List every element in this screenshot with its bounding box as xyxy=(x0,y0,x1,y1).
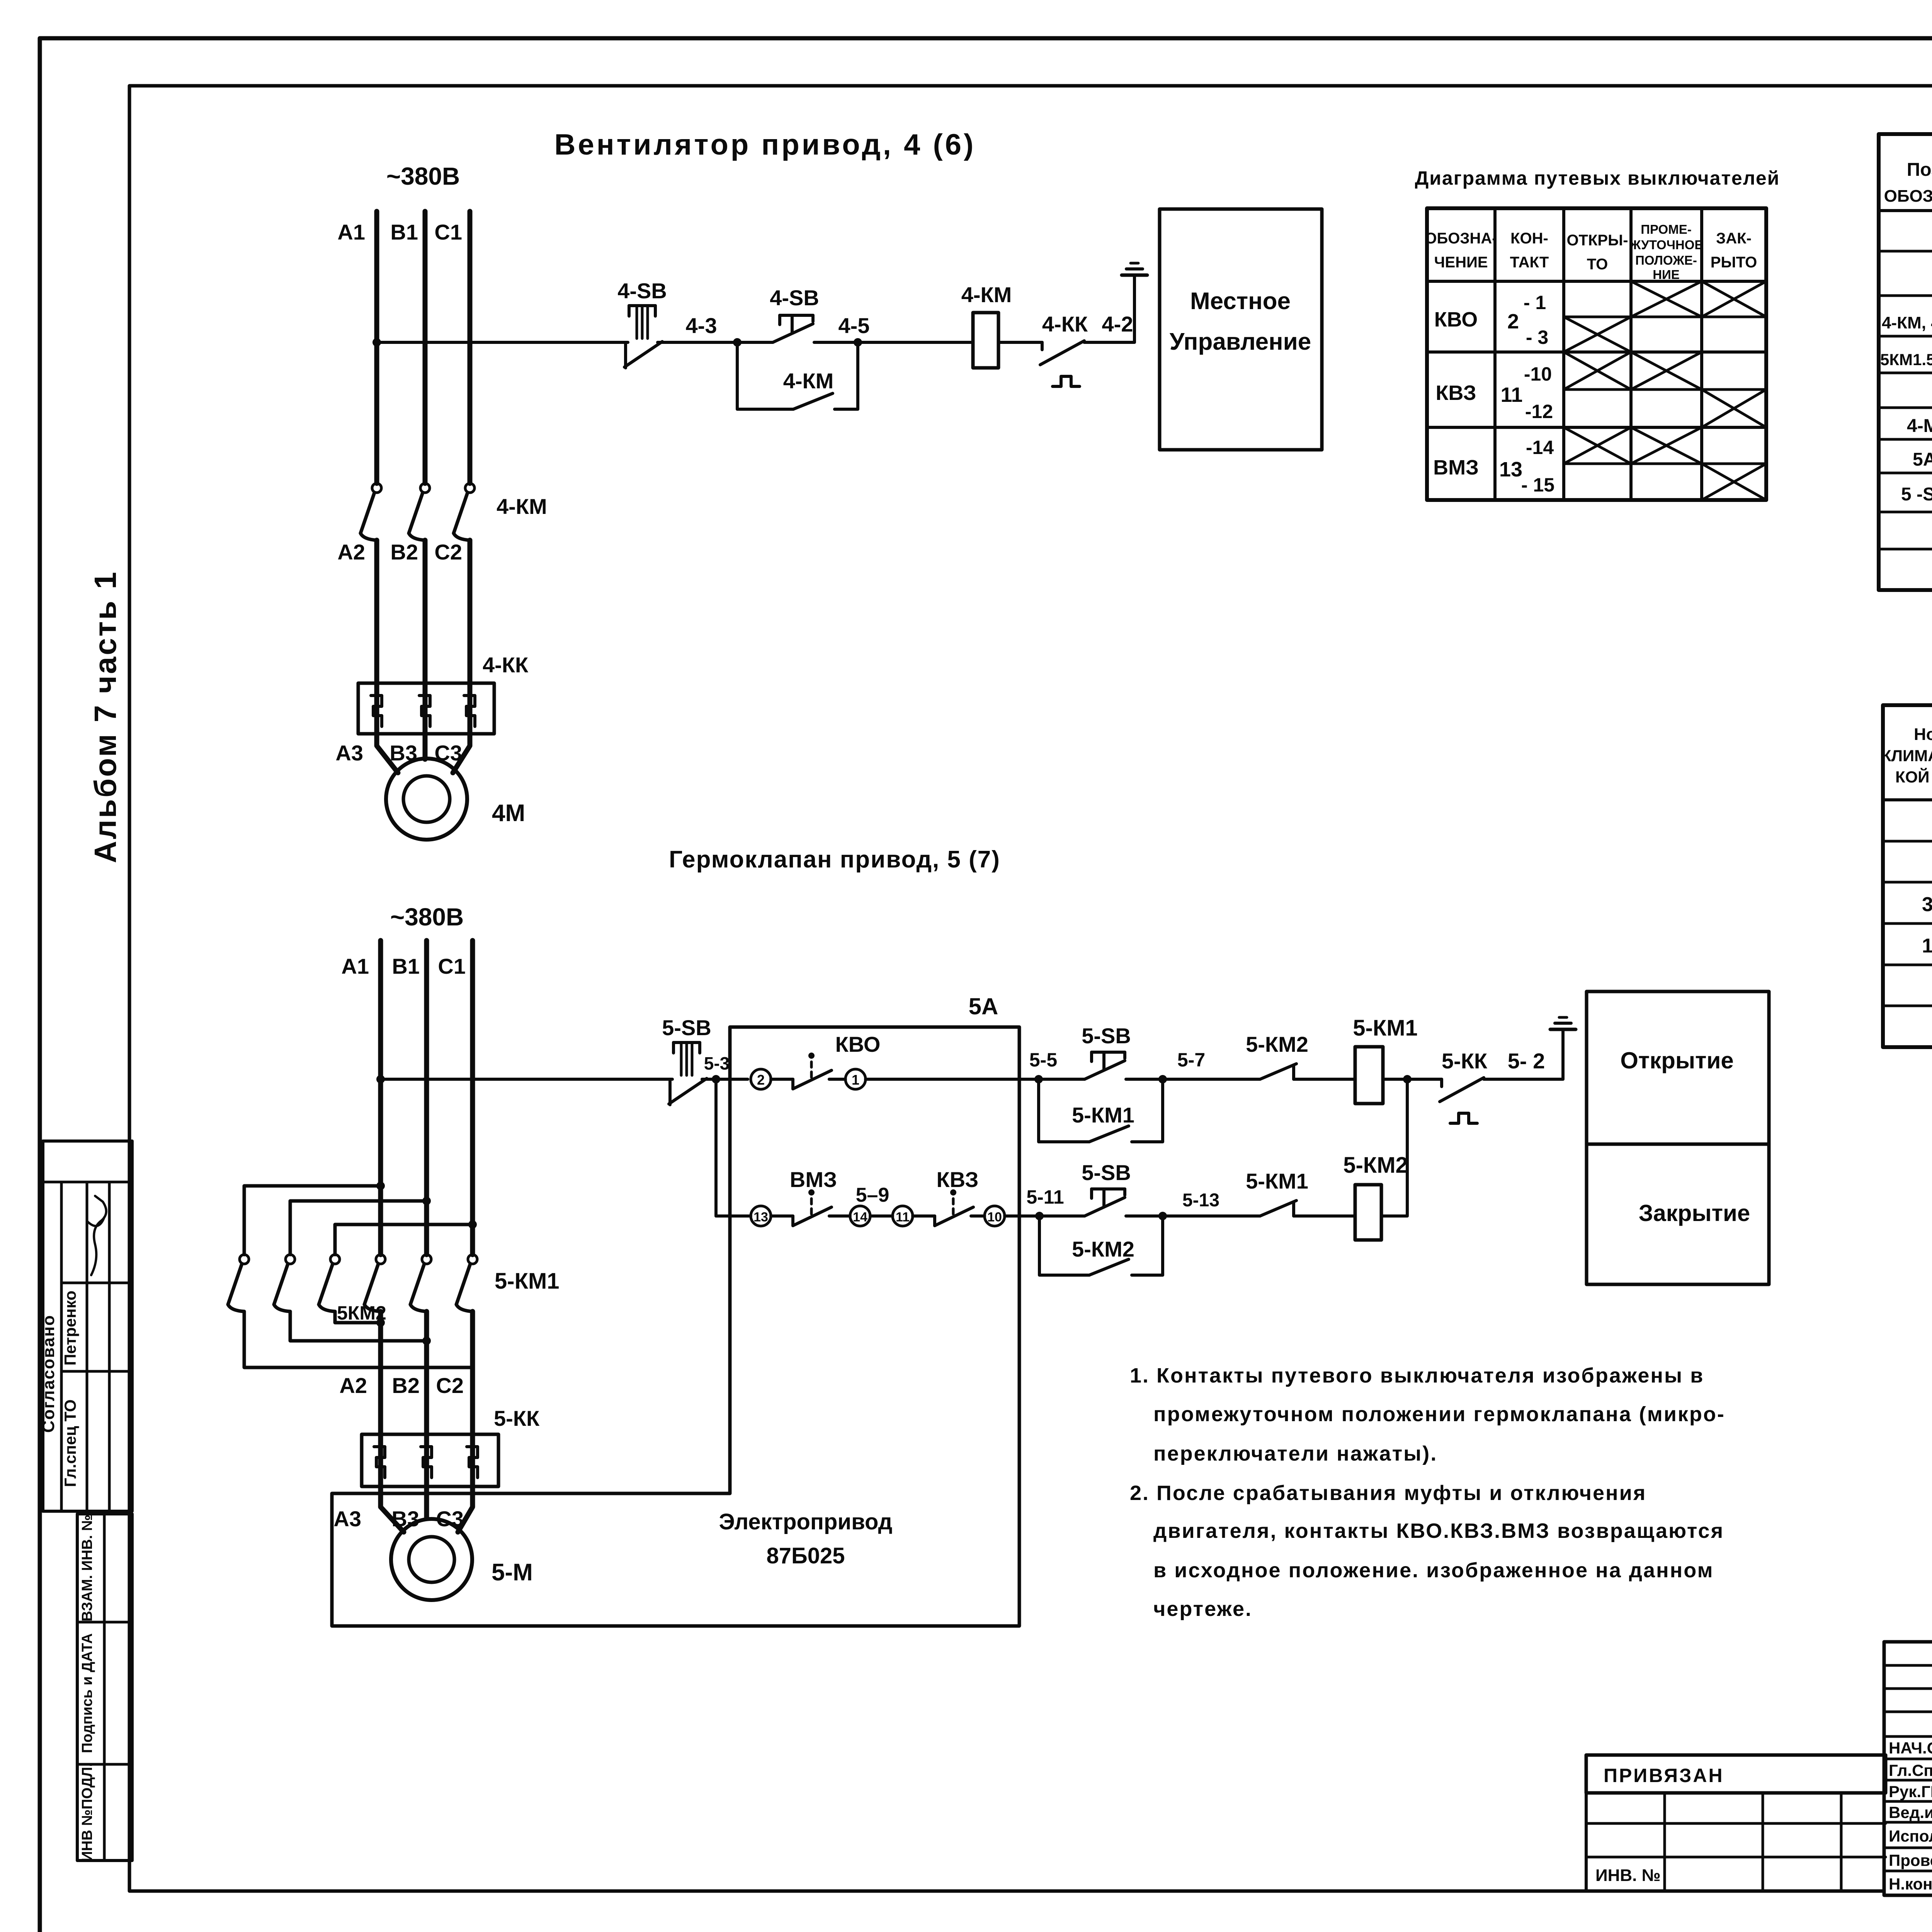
cross KVO-3 open xyxy=(1564,317,1631,352)
signatures rows text xyxy=(1889,1739,1932,1893)
pushbutton 5-SB (close, NO) xyxy=(1085,1189,1125,1216)
wire B3 to motor xyxy=(423,734,428,759)
svg-text:А1: А1 xyxy=(341,954,369,978)
svg-text:4-5: 4-5 xyxy=(838,313,870,338)
title Вентилятор привод 4(6) xyxy=(554,128,976,161)
label 5A xyxy=(969,993,998,1019)
node C3 (valve) xyxy=(436,1507,464,1531)
label Петренко xyxy=(61,1291,79,1366)
wire phase bus C1 xyxy=(468,211,473,483)
svg-text:5-13: 5-13 xyxy=(1182,1190,1219,1211)
svg-text:Исполн.: Исполн. xyxy=(1889,1827,1932,1845)
svg-text:4-КМ: 4-КМ xyxy=(783,369,834,393)
label 5-KK (control) xyxy=(1442,1049,1488,1073)
signatures table xyxy=(1884,1642,1932,1895)
svg-text:5 -SB: 5 -SB xyxy=(1901,484,1932,505)
svg-text:ПРОМЕ-: ПРОМЕ- xyxy=(1641,222,1691,236)
terminal (14) xyxy=(850,1206,870,1226)
label 5-KM1 (coil) xyxy=(1353,1015,1418,1041)
title Гермоклапан привод 5(7) xyxy=(669,846,1000,873)
svg-text:5- 2: 5- 2 xyxy=(1508,1049,1545,1073)
junction of closing branch riser xyxy=(1403,1075,1412,1083)
cross KVZ-12 closed xyxy=(1702,389,1766,427)
svg-text:5-SB: 5-SB xyxy=(1082,1160,1131,1185)
svg-text:ТАКТ: ТАКТ xyxy=(1510,254,1549,271)
cross KVZ-10 intermediate xyxy=(1631,352,1702,389)
parts row Пост управления xyxy=(1901,483,1932,505)
node 5-7 xyxy=(1158,1049,1205,1083)
svg-text:5-КМ2: 5-КМ2 xyxy=(1343,1153,1408,1178)
svg-text:С2: С2 xyxy=(434,540,462,564)
pushbutton 5-SB (open, NO) xyxy=(1085,1052,1125,1079)
svg-text:ПРИВЯЗАН: ПРИВЯЗАН xyxy=(1604,1765,1724,1786)
wire control line to 5-SB xyxy=(381,1078,672,1081)
svg-text:в исходное положение. изобра: в исходное положение. изображенное на да… xyxy=(1153,1559,1714,1582)
svg-text:Гермоклапан привод, 5 (7): Гермоклапан привод, 5 (7) xyxy=(669,846,1000,873)
thermal contact 4-KK xyxy=(1040,341,1084,386)
svg-text:промежуточном положении герм: промежуточном положении гермоклапана (ми… xyxy=(1153,1403,1725,1426)
wire A3 to motor xyxy=(377,734,398,773)
label 5-KK (heaters) xyxy=(494,1406,540,1430)
wire phase B2 (valve) xyxy=(424,1311,429,1486)
svg-text:Гл.спец ТО: Гл.спец ТО xyxy=(61,1400,79,1487)
svg-text:КВЗ: КВЗ xyxy=(1435,381,1476,405)
album label xyxy=(88,570,122,863)
node A1 xyxy=(337,220,365,244)
wire phase bus B1 xyxy=(423,211,428,483)
motor 5-M xyxy=(391,1519,472,1600)
thermal relay 5-KK heater box xyxy=(362,1434,498,1486)
svg-text:Согласовано: Согласовано xyxy=(39,1315,58,1433)
terminal (1) xyxy=(845,1069,866,1089)
parts row Электропривод xyxy=(1913,448,1932,470)
contactor 4-KM pole A xyxy=(361,483,381,540)
label 4-KK (heaters) xyxy=(483,653,529,677)
wire phase bus A1 xyxy=(374,211,379,483)
wire phase C2 (valve) xyxy=(470,1311,475,1486)
svg-text:В2: В2 xyxy=(390,540,418,564)
label 5-SB (open) xyxy=(1082,1024,1131,1048)
label 5-9 xyxy=(856,1184,889,1206)
svg-text:Рук.ГР.: Рук.ГР. xyxy=(1889,1782,1932,1801)
wire 4-KK to ground riser xyxy=(1084,275,1134,342)
node C2 (valve) xyxy=(436,1373,464,1398)
coil 4-KM xyxy=(973,313,998,368)
svg-text:14: 14 xyxy=(853,1210,867,1225)
label 5-KM1 (self-hold) xyxy=(1072,1103,1134,1127)
svg-text:- 1: - 1 xyxy=(1524,292,1546,313)
wire coil to 4-KK xyxy=(998,341,1042,344)
node A2 (valve) xyxy=(339,1373,367,1398)
svg-text:2: 2 xyxy=(1507,310,1519,333)
svg-text:5-11: 5-11 xyxy=(1026,1186,1064,1208)
label Гл.спец ТО xyxy=(61,1400,79,1487)
svg-text:Диаграмма путевых выключател: Диаграмма путевых выключателей xyxy=(1415,167,1780,189)
svg-text:5-SB: 5-SB xyxy=(1082,1024,1131,1048)
label 4-SB xyxy=(617,279,667,303)
svg-text:Местное: Местное xyxy=(1190,288,1291,315)
wire to node 5-13 xyxy=(1126,1214,1260,1218)
node 4-3 xyxy=(686,313,742,347)
svg-text:ПОЛОЖЕ-: ПОЛОЖЕ- xyxy=(1635,253,1697,267)
wire B3 to motor (valve) xyxy=(424,1486,429,1519)
switch VMZ row labels xyxy=(1433,437,1554,496)
svg-text:ОТКРЫ-: ОТКРЫ- xyxy=(1566,232,1628,249)
parts row Электродвигатель xyxy=(1907,415,1932,437)
svg-text:5–9: 5–9 xyxy=(856,1184,889,1206)
contactor 4-KM pole C xyxy=(454,483,474,540)
label 5-KM2 (coil) xyxy=(1343,1153,1408,1178)
svg-text:КВО: КВО xyxy=(835,1032,881,1056)
label 4-KK xyxy=(1042,312,1088,336)
svg-text:ЖУТОЧНОЕ: ЖУТОЧНОЕ xyxy=(1629,238,1703,252)
label Электропривод 87Б025 xyxy=(719,1509,893,1568)
svg-text:Поз.: Поз. xyxy=(1907,160,1932,180)
node 4-5 xyxy=(838,313,870,347)
svg-text:Н.контр.: Н.контр. xyxy=(1889,1875,1932,1893)
svg-text:НИЕ: НИЕ xyxy=(1653,267,1680,282)
svg-text:4-КМ: 4-КМ xyxy=(497,494,547,519)
wire C3 to motor xyxy=(453,734,470,773)
ground (fan control) xyxy=(1122,263,1147,275)
thermal contact 5-KK xyxy=(1440,1078,1484,1123)
label ИНВ.№ подл. xyxy=(79,1763,95,1862)
svg-text:В1: В1 xyxy=(390,220,418,244)
svg-text:Номер: Номер xyxy=(1914,725,1932,744)
label 4-KM (coil) xyxy=(961,282,1012,307)
svg-text:5-КМ2: 5-КМ2 xyxy=(1072,1237,1134,1261)
contactor 5-KM2 pole 1 xyxy=(228,1255,249,1311)
svg-text:КВЗ: КВЗ xyxy=(937,1167,979,1192)
contactor 5-KM1 pole B xyxy=(410,1255,431,1311)
svg-text:~380В: ~380В xyxy=(386,162,460,190)
svg-text:Подпись и ДАТА: Подпись и ДАТА xyxy=(79,1633,95,1753)
cross VMZ-14 open xyxy=(1564,427,1631,464)
svg-text:ВЗАМ. ИНВ. №: ВЗАМ. ИНВ. № xyxy=(79,1515,95,1622)
node B3 xyxy=(389,741,417,765)
node C3 xyxy=(434,741,462,765)
terminal (2) xyxy=(751,1069,771,1089)
svg-text:чертеже.: чертеже. xyxy=(1153,1597,1252,1621)
svg-text:13: 13 xyxy=(1499,458,1522,481)
svg-text:Петренко: Петренко xyxy=(61,1291,79,1366)
svg-text:ОБОЗНАЧ: ОБОЗНАЧ xyxy=(1884,187,1932,206)
svg-text:- 15: - 15 xyxy=(1521,474,1554,496)
svg-text:4-3: 4-3 xyxy=(686,313,717,338)
svg-text:ЗАК-: ЗАК- xyxy=(1716,230,1752,247)
svg-text:ТО: ТО xyxy=(1587,256,1608,273)
svg-text:4-2: 4-2 xyxy=(1102,312,1133,336)
parts row ПМЛ xyxy=(1882,311,1932,335)
box 5A electric drive outline xyxy=(332,1027,1019,1626)
wire A2 segment xyxy=(374,540,379,734)
terminal (11) xyxy=(893,1206,913,1226)
svg-text:13: 13 xyxy=(753,1210,768,1225)
limit switch KVO xyxy=(771,1053,845,1089)
wire crossover loop 2 bottom xyxy=(290,1311,431,1345)
wire crossover loop 3 top xyxy=(335,1220,477,1255)
node C1 xyxy=(434,220,462,244)
diagram table grid xyxy=(1427,208,1766,500)
switch KVZ row labels xyxy=(1435,363,1553,422)
wire node 5-3 into box xyxy=(702,1078,748,1081)
svg-text:Открытие: Открытие xyxy=(1620,1048,1734,1073)
signature squiggle xyxy=(87,1196,106,1275)
wire 5-KK to ground riser (valve) xyxy=(1484,1029,1563,1079)
label KVZ xyxy=(937,1167,979,1192)
box Местное Управление xyxy=(1160,209,1322,450)
switch KVO row labels xyxy=(1434,292,1548,348)
lower stamp box xyxy=(77,1514,132,1861)
wire phase bus B1 (valve) xyxy=(424,940,429,1255)
net ~380V (fan) xyxy=(386,162,460,190)
wire crossover loop 1 top xyxy=(244,1182,385,1255)
cross KVO-1 closed xyxy=(1702,281,1766,317)
cross VMZ-15 closed xyxy=(1702,464,1766,500)
svg-text:1. Контакты путевого выключат: 1. Контакты путевого выключателя изображ… xyxy=(1130,1364,1704,1387)
svg-text:В1: В1 xyxy=(392,954,420,978)
wire crossover loop 1 bottom xyxy=(244,1311,473,1367)
label 5-SB (stop) xyxy=(662,1015,711,1040)
label 5-KM1 (contactor) xyxy=(495,1269,560,1294)
svg-text:~380В: ~380В xyxy=(390,903,464,931)
svg-text:5-КМ2: 5-КМ2 xyxy=(1246,1032,1308,1056)
node C2 xyxy=(434,540,462,564)
wire B2 segment xyxy=(423,540,428,734)
wire crossover loop 3 bottom xyxy=(335,1311,385,1327)
node 5-3 xyxy=(704,1053,730,1083)
parts table header xyxy=(1884,160,1932,206)
contact 5-KM2 NC xyxy=(1260,1064,1355,1079)
svg-text:87Б025: 87Б025 xyxy=(767,1543,845,1568)
svg-text:КВО: КВО xyxy=(1434,308,1478,331)
svg-text:5-КМ1: 5-КМ1 xyxy=(1246,1169,1308,1193)
wire to node 5-7 xyxy=(1126,1078,1260,1081)
pushbutton 4-SB (start, NO) xyxy=(773,315,813,342)
svg-text:5-3: 5-3 xyxy=(704,1053,730,1073)
svg-text:Управление: Управление xyxy=(1170,328,1311,355)
wire coil 5-KM2 to riser xyxy=(1381,1079,1407,1216)
svg-text:4-SB: 4-SB xyxy=(770,286,819,310)
contactor 5-KM2 pole 3 xyxy=(319,1255,340,1311)
svg-text:ВМЗ: ВМЗ xyxy=(790,1167,837,1192)
label 4M xyxy=(492,800,525,827)
svg-text:А3: А3 xyxy=(333,1507,361,1531)
svg-text:А1: А1 xyxy=(337,220,365,244)
node 5-2 xyxy=(1508,1049,1545,1073)
label ВЗАМ.ИНВ.№ xyxy=(79,1515,95,1622)
contactor 5-KM1 pole A xyxy=(364,1255,385,1311)
privyazan table xyxy=(1586,1755,1886,1889)
svg-text:С1: С1 xyxy=(434,220,462,244)
svg-text:А3: А3 xyxy=(335,741,363,765)
svg-text:5-5: 5-5 xyxy=(1029,1049,1057,1071)
svg-text:11: 11 xyxy=(1500,383,1522,406)
thermal relay 4-KK heater box xyxy=(358,683,494,734)
svg-text:КЛИМАТИЧЕС-: КЛИМАТИЧЕС- xyxy=(1881,747,1932,765)
svg-text:3,4: 3,4 xyxy=(1922,893,1932,916)
contact 4-KM self-hold loop xyxy=(737,342,858,409)
svg-text:Закрытие: Закрытие xyxy=(1639,1200,1750,1226)
wire lower branch from riser xyxy=(716,1214,751,1218)
wire between terminals xyxy=(870,1214,893,1218)
label 5-KM2 (NC) xyxy=(1246,1032,1308,1056)
svg-text:5-КМ1: 5-КМ1 xyxy=(1353,1015,1418,1041)
wire 4-SB to node 4-3 xyxy=(658,341,773,344)
svg-text:А2: А2 xyxy=(337,540,365,564)
svg-text:5-КМ1: 5-КМ1 xyxy=(495,1269,560,1294)
diagram title xyxy=(1415,167,1780,189)
svg-text:С2: С2 xyxy=(436,1373,464,1398)
ground (valve control) xyxy=(1550,1017,1576,1029)
diagram header texts xyxy=(1425,222,1757,282)
label 4-SB (start) xyxy=(770,286,819,310)
limit switch VMZ xyxy=(771,1189,850,1226)
net ~380V (valve) xyxy=(390,903,464,931)
pushbutton 4-SB (stop, NC) xyxy=(624,306,662,368)
svg-text:ВМЗ: ВМЗ xyxy=(1433,456,1479,479)
svg-text:5А: 5А xyxy=(1913,449,1932,470)
contact 5-KM1 NC xyxy=(1260,1201,1355,1216)
wire A3 to motor (valve) xyxy=(381,1486,404,1532)
node B1 (valve) xyxy=(392,954,420,978)
contactor 4-KM pole B xyxy=(409,483,430,540)
svg-text:1.2: 1.2 xyxy=(1922,935,1932,957)
label Подпись и дата xyxy=(79,1633,95,1753)
motor 4M xyxy=(386,759,467,840)
parts table grid xyxy=(1879,134,1932,590)
approval stamp box xyxy=(43,1141,132,1511)
label 5KM2 (contactor) xyxy=(337,1302,386,1324)
wire node 4-5 to coil xyxy=(814,341,973,344)
svg-text:5-КК: 5-КК xyxy=(494,1406,540,1430)
contactor 5-KM2 pole 2 xyxy=(274,1255,295,1311)
node B2 (valve) xyxy=(392,1373,420,1398)
cross KVZ-10 open xyxy=(1564,352,1631,389)
label VMZ xyxy=(790,1167,837,1192)
label 4-KM (contactor) xyxy=(497,494,547,519)
svg-text:2: 2 xyxy=(757,1072,765,1088)
svg-text:С1: С1 xyxy=(438,954,466,978)
svg-text:ИНВ. №: ИНВ. № xyxy=(1595,1866,1661,1885)
svg-text:-10: -10 xyxy=(1524,363,1552,385)
label 5-KM1 (NC) xyxy=(1246,1169,1308,1193)
svg-text:двигателя, контакты КВО.КВЗ.В: двигателя, контакты КВО.КВЗ.ВМЗ возвраща… xyxy=(1153,1519,1724,1543)
limit switch KVZ xyxy=(913,1189,985,1226)
svg-text:5-КК: 5-КК xyxy=(1442,1049,1488,1073)
note 1 and 2 xyxy=(1130,1364,1725,1621)
pushbutton 5-SB (stop, NC) xyxy=(669,1043,707,1105)
svg-text:Гл.Спец: Гл.Спец xyxy=(1889,1761,1932,1779)
coil 5-KM2 xyxy=(1355,1185,1381,1240)
svg-text:А2: А2 xyxy=(339,1373,367,1398)
node 5-13 xyxy=(1158,1190,1219,1220)
svg-text:-12: -12 xyxy=(1525,401,1553,422)
wire C3 to motor (valve) xyxy=(458,1486,473,1532)
svg-text:11: 11 xyxy=(896,1210,910,1225)
junction on bus A1 xyxy=(372,338,381,347)
table 1 row 4 xyxy=(1922,925,1932,966)
svg-text:КОН-: КОН- xyxy=(1510,230,1548,247)
svg-text:ИНВ №ПОДЛ.: ИНВ №ПОДЛ. xyxy=(79,1763,95,1862)
wire crossover loop 2 top xyxy=(290,1197,431,1255)
svg-text:4-КМ, 4-SB: 4-КМ, 4-SB xyxy=(1882,313,1932,332)
node B1 xyxy=(390,220,418,244)
svg-text:1: 1 xyxy=(852,1072,859,1088)
wire to node 5-11 xyxy=(1005,1214,1085,1218)
svg-text:5-SB: 5-SB xyxy=(662,1015,711,1040)
wire C2 segment xyxy=(468,540,473,734)
node B2 xyxy=(390,540,418,564)
svg-text:КОЙ ЗОНЫ: КОЙ ЗОНЫ xyxy=(1895,767,1932,786)
node A3 (valve) xyxy=(333,1507,361,1531)
coil 5-KM1 xyxy=(1355,1047,1383,1104)
svg-text:4-М: 4-М xyxy=(1907,416,1932,436)
junction on bus A1 (valve) xyxy=(376,1075,385,1083)
svg-text:В2: В2 xyxy=(392,1373,420,1398)
table 1 headers xyxy=(1881,724,1932,786)
svg-text:ОБОЗНА-: ОБОЗНА- xyxy=(1425,230,1497,247)
label 5-M xyxy=(492,1559,533,1586)
svg-text:4-КМ: 4-КМ xyxy=(961,282,1012,307)
svg-text:5А: 5А xyxy=(969,993,998,1019)
svg-text:5-М: 5-М xyxy=(492,1559,533,1586)
node 4-2 xyxy=(1102,312,1133,336)
svg-text:5КМ1.5КМ-2: 5КМ1.5КМ-2 xyxy=(1880,350,1932,369)
node 5-5 xyxy=(1029,1049,1057,1083)
node A3 xyxy=(335,741,363,765)
wire KVO to node 5-5 xyxy=(866,1078,1085,1081)
table 1 row 3 xyxy=(1922,884,1932,925)
svg-text:-14: -14 xyxy=(1526,437,1554,458)
node A2 xyxy=(337,540,365,564)
wire coil to 5-KK xyxy=(1383,1078,1442,1081)
svg-text:Вентилятор привод, 4 (6): Вентилятор привод, 4 (6) xyxy=(554,128,976,161)
svg-text:ЧЕНИЕ: ЧЕНИЕ xyxy=(1434,254,1488,271)
cross KVO-1 intermediate xyxy=(1631,281,1702,317)
node B3 (valve) xyxy=(391,1507,419,1531)
label 5-SB (close) xyxy=(1082,1160,1131,1185)
terminal (10) xyxy=(985,1206,1005,1226)
label Согласовано xyxy=(39,1315,58,1433)
label 4-KM (self-hold) xyxy=(783,369,834,393)
label KVO xyxy=(835,1032,881,1056)
svg-text:Электропривод: Электропривод xyxy=(719,1509,893,1534)
svg-text:4-КК: 4-КК xyxy=(1042,312,1088,336)
cross VMZ-14 intermediate xyxy=(1631,427,1702,464)
label 5-KM2 (self-hold) xyxy=(1072,1237,1134,1261)
svg-text:4-КК: 4-КК xyxy=(483,653,529,677)
svg-text:переключатели нажаты).: переключатели нажаты). xyxy=(1153,1442,1437,1465)
wire phase A2 (valve) xyxy=(378,1311,383,1486)
svg-text:4-SB: 4-SB xyxy=(617,279,667,303)
svg-text:РЫТО: РЫТО xyxy=(1711,254,1757,271)
contact 5-KM1 self-hold loop xyxy=(1039,1079,1163,1142)
table 1 grid xyxy=(1883,705,1932,1047)
svg-text:Провер.: Провер. xyxy=(1889,1851,1932,1869)
contact 5-KM2 self-hold loop xyxy=(1039,1216,1163,1275)
box Открытие / Закрытие xyxy=(1587,992,1769,1284)
svg-text:- 3: - 3 xyxy=(1526,327,1548,348)
svg-text:Альбом 7 часть 1: Альбом 7 часть 1 xyxy=(88,570,122,863)
wire riser 5-3 down to lower branch xyxy=(714,1079,718,1216)
svg-text:4М: 4М xyxy=(492,800,525,827)
svg-text:Вед.инж: Вед.инж xyxy=(1889,1803,1932,1821)
terminal (13) xyxy=(751,1206,771,1226)
svg-text:10: 10 xyxy=(987,1210,1002,1225)
node C1 (valve) xyxy=(438,954,466,978)
svg-text:5-7: 5-7 xyxy=(1177,1049,1205,1071)
